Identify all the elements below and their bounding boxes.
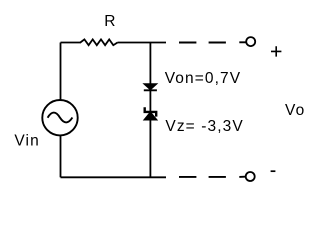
wire top (node A: Vin+ to R) [61,42,82,44]
wire dashed bottom segment 2 [209,176,226,178]
AC source Vin sine wave [48,113,73,123]
wire left rail upper (Vin top lead) [60,43,62,101]
wire top (R to output node) [118,42,167,44]
wire bottom (Vin- to output node) [61,176,167,178]
polarity minus sign [271,170,276,172]
AC source Vin circle [42,100,77,135]
svg-text:Vo: Vo [285,102,305,119]
wire dashed top segment 1 [179,42,196,44]
polarity plus sign [271,46,281,56]
resistor R [80,39,117,45]
wire dashed top segment 2 [209,42,226,44]
wire dashed bottom segment 1 [179,176,196,178]
svg-text:R: R [104,13,116,30]
svg-text:Vz= -3,3V: Vz= -3,3V [165,118,243,135]
svg-text:Vin: Vin [14,132,39,149]
terminal Vo- circle [246,172,255,181]
wire dashed bottom segment 3 [239,176,245,178]
svg-text:Von=0,7V: Von=0,7V [165,70,241,87]
zener diode D2 triangle (anode) [144,112,157,120]
terminal Vo+ circle [246,37,255,46]
wire dashed top segment 3 [239,41,246,43]
diode D1 triangle (anode) [144,84,157,90]
diode D1 bar (cathode) [144,89,157,91]
wire diode branch vertical [149,43,151,178]
zener diode D2 cathode bar with bent ends [145,107,157,116]
wire left rail lower (Vin bottom lead) [60,135,62,177]
